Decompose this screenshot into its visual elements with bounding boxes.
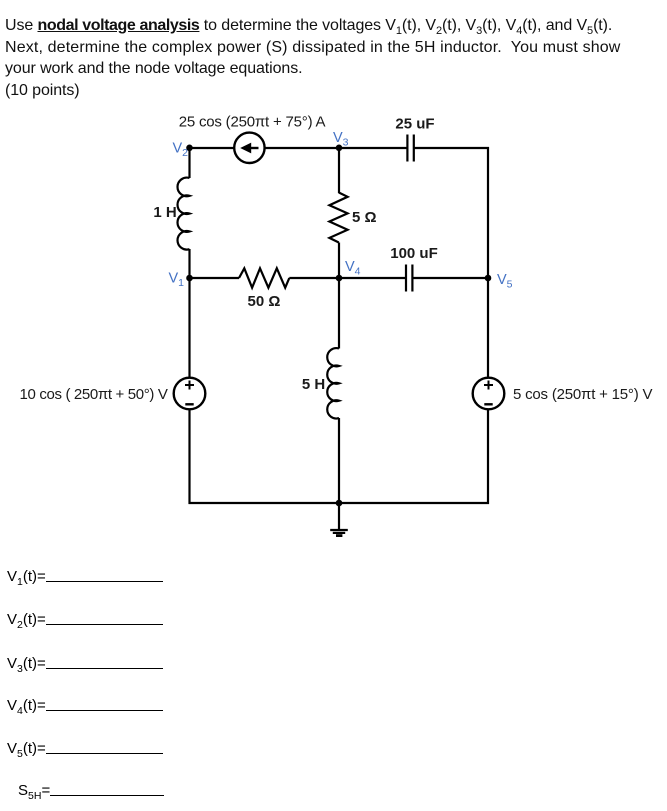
capacitor 100 uF — [406, 265, 412, 292]
inductor 5 H — [327, 348, 339, 418]
capacitor 25 uF — [407, 135, 413, 162]
wire middle row 100uF capacitor to V5 — [414, 277, 489, 279]
node V4 junction dot — [336, 275, 343, 282]
wire top segment 25uF capacitor to top-right corner — [415, 147, 490, 149]
wire top segment current source to V3 — [264, 147, 339, 149]
svg-text:25 uF: 25 uF — [395, 116, 434, 133]
ground — [330, 503, 348, 536]
svg-text:V5: V5 — [497, 272, 513, 291]
wire middle row 50 ohm resistor to V4 — [289, 277, 339, 279]
current source 25 cos (250pit + 75deg) A — [234, 133, 264, 163]
wire right rail lower — [487, 409, 489, 505]
answer line V3(t) — [7, 653, 163, 672]
wire middle rail 5 ohm resistor to V4 — [338, 243, 340, 279]
answer line V2(t) — [7, 609, 163, 628]
svg-text:V3: V3 — [333, 130, 349, 149]
node label V4 — [345, 259, 361, 278]
resistor label 50 ohm — [248, 293, 281, 310]
svg-text:5 cos (250πt + 15°) V: 5 cos (250πt + 15°) V — [513, 386, 652, 403]
wire right rail upper — [487, 147, 489, 379]
resistor 50 ohm — [239, 268, 289, 287]
svg-text:50 Ω: 50 Ω — [248, 293, 281, 310]
wire middle rail V4 to 5H inductor — [338, 278, 340, 349]
current source label 25 cos (250pit + 75deg) A — [179, 114, 326, 131]
wire top segment V2 to current source — [190, 147, 236, 149]
wire left rail V2 to 1H inductor — [188, 147, 190, 178]
inductor label 1 H — [153, 204, 176, 221]
answer line S5H — [18, 780, 164, 799]
node label V5 — [497, 272, 513, 291]
resistor label 5 ohm — [352, 209, 377, 226]
svg-text:25 cos (250πt + 75°) A: 25 cos (250πt + 75°) A — [179, 114, 326, 131]
voltage source 5 cos (250pit + 15deg) V — [473, 378, 505, 410]
wire left rail V1 to left voltage source — [188, 278, 190, 379]
svg-text:V4: V4 — [345, 259, 361, 278]
wire bottom rail — [189, 502, 490, 504]
capacitor label 100 uF — [390, 245, 438, 262]
ground node junction dot — [336, 500, 343, 507]
voltage source 10 cos (250pit + 50deg) V — [174, 378, 206, 410]
problem statement text — [5, 15, 665, 101]
svg-text:5 Ω: 5 Ω — [352, 209, 377, 226]
node label V1 — [168, 271, 184, 290]
inductor 1 H — [178, 178, 190, 250]
node V5 junction dot — [485, 275, 492, 282]
wire middle row V1 to 50 ohm resistor — [190, 277, 240, 279]
node V3 junction dot — [336, 145, 343, 152]
svg-text:5 H: 5 H — [302, 376, 325, 393]
resistor 5 ohm — [329, 193, 347, 243]
capacitor label 25 uF — [395, 116, 434, 133]
voltage source label 5 cos (250pit + 15deg) V — [513, 386, 652, 403]
node label V3 — [333, 130, 349, 149]
svg-text:V1: V1 — [168, 271, 184, 290]
answer line V1(t) — [7, 566, 163, 585]
wire left rail left voltage source to bottom — [188, 409, 190, 505]
node V1 junction dot — [186, 275, 193, 282]
inductor label 5 H — [302, 376, 325, 393]
circuit schematic — [0, 0, 667, 560]
svg-text:10 cos ( 250πt + 50°) V: 10 cos ( 250πt + 50°) V — [20, 386, 168, 403]
answer line V5(t) — [7, 738, 163, 757]
node V2 junction dot — [186, 145, 193, 152]
wire middle rail V3 to 5 ohm resistor — [338, 148, 340, 193]
voltage source label 10 cos (250pit + 50deg) V — [20, 386, 168, 403]
wire middle rail 5H inductor to bottom — [338, 418, 340, 503]
svg-text:100 uF: 100 uF — [390, 245, 438, 262]
wire top segment V3 to 25uF capacitor — [339, 147, 407, 149]
wire middle row V4 to 100uF capacitor — [339, 277, 406, 279]
svg-text:V2: V2 — [172, 141, 188, 160]
wire left rail 1H inductor to V1 — [188, 249, 190, 278]
svg-text:1 H: 1 H — [153, 204, 176, 221]
node label V2 — [172, 141, 188, 160]
answer line V4(t) — [7, 695, 163, 714]
